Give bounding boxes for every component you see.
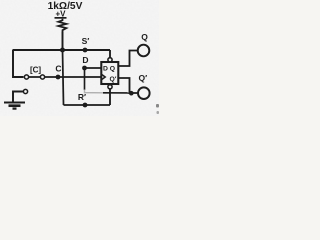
terminal Q' (138, 73, 150, 99)
wire Q output (119, 51, 138, 67)
wire Q' output (119, 78, 139, 93)
power +V (55, 10, 67, 19)
node D (82, 55, 88, 70)
ground (4, 103, 25, 109)
wire ground branch (13, 92, 23, 103)
node junction resistor/rail (60, 48, 65, 53)
terminal contact upper (pull-up side) (24, 75, 28, 79)
svg-text:Q: Q (141, 32, 148, 42)
svg-text:Q′: Q′ (138, 73, 147, 83)
wire D feedback (84, 68, 86, 90)
wire left drop (13, 50, 24, 77)
wire D input (85, 67, 102, 69)
resistor R1 1kΩ pull-up (58, 19, 66, 32)
wire S'R' vertical (63, 50, 64, 105)
svg-text:R′: R′ (78, 92, 86, 102)
terminal contact ground side (23, 89, 27, 93)
clear bubble (108, 85, 112, 89)
wire S' rail (13, 49, 111, 51)
node R' (78, 92, 87, 107)
terminal contact clock side (40, 75, 44, 79)
wire R' line (64, 104, 111, 106)
wire rail to preset bubble (109, 50, 111, 58)
svg-text:Q: Q (110, 66, 115, 73)
node C (55, 63, 61, 79)
wire resistor to S' rail (62, 32, 64, 51)
node S' (82, 36, 90, 52)
svg-text:C: C (55, 63, 61, 73)
clock pin (102, 75, 105, 80)
flip-flop U1 (101, 62, 118, 84)
svg-text:S′: S′ (82, 36, 90, 46)
node feedback junction (129, 91, 134, 96)
terminal Q (138, 32, 150, 56)
svg-text:Q′: Q′ (110, 76, 117, 83)
wire R' to clear bubble (109, 90, 111, 106)
svg-text:D: D (103, 66, 108, 73)
preset bubble (108, 58, 112, 62)
svg-text:[C]: [C] (30, 66, 41, 75)
svg-text:D: D (82, 55, 88, 65)
wire clock line (26, 76, 101, 78)
